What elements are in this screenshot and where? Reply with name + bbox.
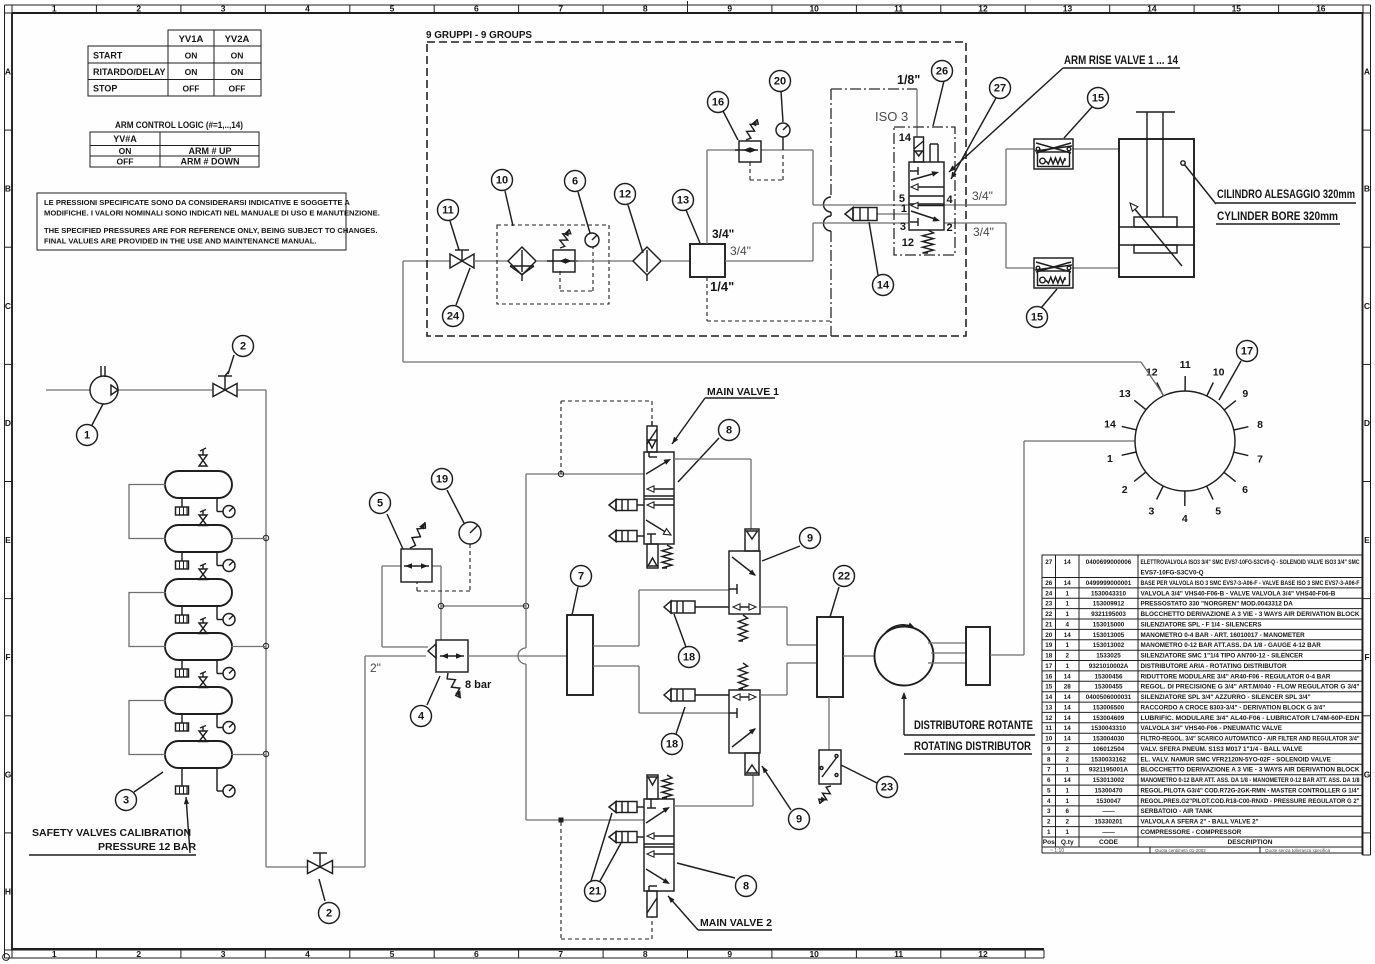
svg-text:1: 1 [1065, 663, 1069, 670]
svg-text:6: 6 [572, 176, 578, 188]
svg-text:SILENZIATORE SPL - F 1/4 - SIL: SILENZIATORE SPL - F 1/4 - SILENCERS [1141, 621, 1262, 628]
svg-text:1: 1 [1107, 453, 1113, 465]
svg-text:1: 1 [1047, 829, 1051, 836]
svg-text:FINAL VALUES ARE PROVIDED IN T: FINAL VALUES ARE PROVIDED IN THE USE AND… [44, 237, 317, 246]
wire filter 12 to block 13 [661, 260, 690, 262]
svg-text:THE SPECIFIED PRESSURES ARE FO: THE SPECIFIED PRESSURES ARE FOR REFERENC… [44, 226, 377, 235]
svg-text:3: 3 [123, 795, 129, 807]
svg-text:8: 8 [743, 881, 749, 893]
svg-text:11: 11 [894, 949, 903, 959]
balloon 13 [686, 210, 700, 243]
svg-text:7: 7 [578, 571, 584, 583]
svg-text:2: 2 [1122, 484, 1128, 496]
svg-text:RITARDO/DELAY: RITARDO/DELAY [93, 67, 166, 77]
pneumatic ball valve 9 bottom [729, 690, 760, 775]
svg-text:0400506000031: 0400506000031 [1086, 694, 1132, 701]
svg-text:1: 1 [1065, 642, 1069, 649]
silencer cartridges item 21 [609, 802, 644, 843]
svg-text:G: G [5, 769, 12, 779]
svg-text:3: 3 [1047, 808, 1051, 815]
svg-text:7: 7 [558, 4, 563, 14]
flow regulator 15 bottom [1034, 258, 1073, 288]
svg-text:13: 13 [1063, 4, 1073, 14]
svg-text:PRESSOSTATO 330 "NORGREN" MOD.: PRESSOSTATO 330 "NORGREN" MOD.0043312 DA [1141, 601, 1294, 608]
svg-text:OFF: OFF [183, 84, 200, 94]
svg-text:F: F [1364, 652, 1369, 662]
wire schedule circle to group supply [403, 261, 1164, 396]
svg-text:153006500: 153006500 [1093, 705, 1125, 712]
balloon 22 [830, 587, 839, 617]
svg-text:VALVOLA A SFERA 2" - BALL VALV: VALVOLA A SFERA 2" - BALL VALVE 2" [1141, 819, 1259, 826]
svg-text:10: 10 [809, 949, 819, 959]
pneumatic valve 14 cartridge [845, 208, 877, 221]
svg-text:9: 9 [727, 949, 732, 959]
label 3/4 pipes right [972, 189, 994, 239]
svg-text:E: E [1364, 535, 1370, 545]
group dashed box [427, 42, 966, 336]
svg-text:14: 14 [1064, 673, 1072, 680]
svg-text:3/4": 3/4" [972, 189, 993, 203]
wire valve 11 to filter group [474, 260, 508, 262]
balloon 26 [933, 81, 944, 126]
svg-text:19: 19 [1045, 642, 1053, 649]
svg-text:153015000: 153015000 [1093, 621, 1125, 628]
svg-text:LUBRIFIC. MODULARE 3/4" AL40-F: LUBRIFIC. MODULARE 3/4" AL40-F06 - LUBRI… [1141, 715, 1360, 722]
svg-text:1: 1 [52, 949, 57, 959]
svg-text:12: 12 [978, 949, 988, 959]
svg-text:——: —— [1102, 829, 1115, 836]
wire valve2 output to valve 9 bottom [674, 775, 753, 806]
svg-text:10: 10 [1213, 367, 1225, 379]
svg-text:——: —— [1102, 808, 1115, 815]
svg-text:20: 20 [1045, 632, 1053, 639]
svg-text:VALVOLA 3/4" VHS40-F06 - PNEUM: VALVOLA 3/4" VHS40-F06 - PNEUMATIC VALVE [1141, 725, 1282, 732]
balloon 14 [869, 222, 878, 275]
svg-text:22: 22 [1045, 611, 1053, 618]
wire pipes to flow regulators [1006, 149, 1119, 268]
node pilot junction valve 2 [559, 818, 564, 823]
svg-text:1: 1 [84, 430, 90, 442]
svg-text:8: 8 [1257, 419, 1263, 431]
svg-text:3/4": 3/4" [730, 244, 751, 258]
svg-text:4: 4 [305, 949, 310, 959]
svg-text:RIDUTTORE MODULARE 3/4" AR40-F: RIDUTTORE MODULARE 3/4" AR40-F06 - REGUL… [1141, 673, 1331, 680]
svg-text:11: 11 [1180, 359, 1191, 371]
svg-text:D: D [5, 418, 11, 428]
svg-text:0400699000006: 0400699000006 [1086, 559, 1132, 566]
svg-text:4: 4 [418, 711, 425, 723]
balloon 12 [628, 205, 643, 253]
svg-text:B: B [1364, 184, 1370, 194]
regulator in group 10 [547, 250, 578, 272]
svg-text:18: 18 [1045, 653, 1053, 660]
wire valve1 output to valve 9 top [674, 459, 751, 529]
node tank2 junction [263, 535, 268, 540]
svg-text:VALV. SFERA PNEUM. S1S3 M017: VALV. SFERA PNEUM. S1S3 M017 1"1/4 - BAL… [1141, 746, 1303, 753]
node tank6 junction [263, 751, 268, 756]
svg-text:9: 9 [1047, 746, 1051, 753]
svg-text:Pos: Pos [1043, 839, 1055, 846]
svg-text:9: 9 [807, 533, 813, 545]
svg-text:D: D [1364, 418, 1370, 428]
svg-text:BLOCCHETTO DERIVAZIONE A 3 VIE: BLOCCHETTO DERIVAZIONE A 3 VIE - 3 WAYS … [1141, 767, 1360, 774]
svg-text:3: 3 [1148, 505, 1154, 517]
svg-text:OFF: OFF [117, 157, 134, 167]
spring valve 9 top [739, 615, 748, 641]
svg-text:YV#A: YV#A [113, 134, 137, 144]
svg-text:8 bar: 8 bar [465, 679, 492, 691]
balloon 23 [841, 765, 877, 783]
svg-text:BLOCCHETTO DERIVAZIONE A 3 VIE: BLOCCHETTO DERIVAZIONE A 3 VIE - 3 WAYS … [1141, 611, 1360, 618]
svg-text:E: E [5, 535, 11, 545]
balloon 18 bottom [676, 707, 685, 734]
svg-text:18: 18 [683, 652, 695, 664]
label rotating distributor [901, 692, 1035, 754]
svg-text:6: 6 [1242, 484, 1248, 496]
fitting and gauge below tank 6 [176, 768, 236, 797]
balloon 18 top [674, 614, 686, 647]
pressure regulator 4 (2 inch pilot) [428, 640, 468, 672]
node junction 441,606 [441, 605, 526, 607]
svg-text:7: 7 [558, 949, 563, 959]
relief arrow regulator 5 [410, 522, 426, 548]
svg-text:15: 15 [1045, 684, 1053, 691]
svg-text:MANOMETRO 0-4 BAR - ART. 16010: MANOMETRO 0-4 BAR - ART. 16010017 - MANO… [1141, 632, 1306, 639]
svg-text:14: 14 [1064, 736, 1072, 743]
pilot line 1/4 dashed [707, 277, 831, 321]
balloon 11 [450, 221, 459, 250]
svg-text:1530047: 1530047 [1096, 798, 1121, 805]
svg-text:1530043310: 1530043310 [1091, 725, 1127, 732]
BOM parts table [1042, 555, 1362, 847]
svg-text:153009912: 153009912 [1093, 601, 1125, 608]
svg-text:12: 12 [619, 189, 631, 201]
svg-text:MAIN VALVE 1: MAIN VALVE 1 [707, 386, 779, 398]
svg-text:SILENZIATORE SPL 3/4" AZZURRO: SILENZIATORE SPL 3/4" AZZURRO - SILENCER… [1141, 694, 1311, 701]
svg-text:SAFETY VALVES CALIBRATION: SAFETY VALVES CALIBRATION [32, 827, 191, 839]
top center mark [687, 1, 689, 13]
svg-text:1: 1 [52, 4, 57, 14]
balloon 2 top [228, 355, 234, 374]
svg-text:RACCORDO A CROCE 8303-3/4" - D: RACCORDO A CROCE 8303-3/4" - DERIVATION … [1141, 705, 1326, 712]
svg-text:DESCRIPTION: DESCRIPTION [1227, 839, 1272, 846]
label ARM RISE VALVE [949, 55, 1180, 172]
svg-text:9321010002A: 9321010002A [1089, 663, 1129, 670]
balloon 15 bottom [1041, 289, 1057, 308]
balloon 7 [572, 587, 578, 615]
svg-text:EL. VALV. NAMUR SMC VFR2120N-5: EL. VALV. NAMUR SMC VFR2120N-5YO-02F - S… [1141, 756, 1331, 763]
svg-text:16: 16 [1045, 673, 1053, 680]
wire pipes to ISO valve [813, 205, 1006, 223]
svg-text:6: 6 [1047, 777, 1051, 784]
svg-text:14: 14 [1064, 694, 1072, 701]
svg-text:15300470: 15300470 [1094, 788, 1123, 795]
svg-text:14: 14 [1064, 580, 1072, 587]
wire block 13 loop bottom [725, 223, 813, 261]
svg-text:5: 5 [1047, 788, 1051, 795]
balloon 3 [134, 772, 163, 792]
svg-text:153004609: 153004609 [1093, 715, 1125, 722]
svg-text:9321195001A: 9321195001A [1089, 767, 1129, 774]
derivation block 22 [817, 617, 843, 697]
label cylinder [1181, 161, 1356, 224]
balloon 8 top [678, 438, 719, 482]
svg-text:14: 14 [1104, 419, 1116, 431]
svg-text:1530043310: 1530043310 [1091, 590, 1127, 597]
svg-text:14: 14 [1064, 632, 1072, 639]
svg-text:9 GRUPPI - 9 GROUPS: 9 GRUPPI - 9 GROUPS [426, 29, 532, 41]
svg-text:SILENZIATORE SMC 1"1/4 TIPO AN: SILENZIATORE SMC 1"1/4 TIPO AN700-12 - S… [1141, 653, 1304, 660]
svg-text:5: 5 [377, 498, 383, 510]
svg-text:1: 1 [1065, 767, 1069, 774]
gauge 6 [560, 233, 599, 291]
svg-text:BASE PER VALVOLA ISO 3 SMC EVS: BASE PER VALVOLA ISO 3 SMC EVS7-3-A06-F … [1141, 580, 1360, 587]
svg-text:15300456: 15300456 [1094, 673, 1123, 680]
filter group dashed box 10 [497, 225, 609, 304]
svg-text:EVS7-10FG-S3CV0-Q: EVS7-10FG-S3CV0-Q [1141, 570, 1204, 577]
svg-text:6: 6 [1065, 808, 1069, 815]
svg-text:3: 3 [221, 4, 226, 14]
svg-text:Q.ty: Q.ty [1061, 839, 1074, 846]
filter diamond [508, 247, 536, 281]
adapter block [966, 627, 990, 685]
svg-text:REGOL.PILOTA G3/4" COD.R72G-2G: REGOL.PILOTA G3/4" COD.R72G-2GK-RMN - MA… [1141, 788, 1360, 795]
label safety valves calibration [29, 797, 196, 855]
svg-text:16: 16 [712, 97, 724, 109]
svg-text:YV1A: YV1A [179, 34, 204, 45]
svg-text:ON: ON [231, 67, 244, 77]
wire receiver outputs [593, 590, 729, 713]
balloon 1 [92, 404, 103, 425]
svg-text:14: 14 [1064, 715, 1072, 722]
svg-text:106012504: 106012504 [1093, 746, 1125, 753]
safety valve on tank 1 [199, 448, 207, 466]
main valve 1 (item 8) [644, 421, 674, 568]
svg-text:9: 9 [1242, 388, 1248, 400]
svg-text:153004030: 153004030 [1093, 736, 1125, 743]
svg-text:8: 8 [643, 949, 648, 959]
svg-text:15300455: 15300455 [1094, 684, 1123, 691]
svg-text:ON: ON [231, 51, 244, 61]
svg-text:17: 17 [1241, 346, 1253, 358]
svg-text:1: 1 [1065, 601, 1069, 608]
gauge 19 [459, 522, 481, 544]
svg-text:26: 26 [936, 66, 948, 78]
svg-text:REGOL.PRES.G2"PILOT.COD.R18-C0: REGOL.PRES.G2"PILOT.COD.R18-C00-RNXD - P… [1141, 798, 1360, 805]
wire adapter to schedule circle [990, 441, 1135, 655]
svg-text:26: 26 [1045, 580, 1053, 587]
svg-text:4: 4 [1182, 513, 1188, 525]
pressure switch 23 [819, 697, 841, 784]
svg-text:1: 1 [1065, 788, 1069, 795]
svg-text:COMPRESSORE - COMPRESSOR: COMPRESSORE - COMPRESSOR [1141, 829, 1242, 836]
svg-text:LE PRESSIONI SPECIFICATE SONO: LE PRESSIONI SPECIFICATE SONO DA CONSIDE… [44, 198, 350, 207]
svg-text:11: 11 [442, 205, 454, 217]
manual valve 11 [450, 250, 474, 268]
svg-text:A: A [1364, 67, 1370, 77]
main valve 2 (item 8) [644, 775, 674, 917]
BOM header row [1043, 839, 1273, 846]
svg-text:3: 3 [221, 949, 226, 959]
svg-text:ARM CONTROL LOGIC (#=1,..,14): ARM CONTROL LOGIC (#=1,..,14) [115, 120, 243, 131]
table ARM CONTROL LOGIC [90, 120, 259, 167]
schedule circle rays and numbers [1104, 359, 1263, 525]
svg-text:21: 21 [589, 886, 601, 898]
svg-text:10: 10 [809, 4, 819, 14]
gauge 20 [750, 123, 790, 180]
svg-text:2: 2 [1065, 756, 1069, 763]
svg-text:22: 22 [838, 571, 850, 583]
svg-text:14: 14 [1064, 777, 1072, 784]
svg-text:G: G [1364, 769, 1371, 779]
air tanks item 3 (6x serbatoio) [129, 471, 266, 768]
master controller regulator 5 [401, 549, 432, 582]
svg-text:ROTATING DISTRIBUTOR: ROTATING DISTRIBUTOR [914, 739, 1031, 753]
svg-text:2: 2 [136, 4, 141, 14]
svg-text:F: F [5, 652, 10, 662]
svg-text:START: START [93, 51, 123, 61]
spring valve 9 bottom [739, 663, 748, 689]
balloon 10 [505, 191, 513, 226]
svg-text:14: 14 [1147, 4, 1157, 14]
svg-text:6: 6 [474, 4, 479, 14]
ball valve 2 top [213, 371, 237, 397]
svg-text:YV2A: YV2A [225, 34, 250, 45]
ball valve 2 bottom [308, 853, 333, 874]
bottom ruler [12, 949, 1044, 959]
svg-text:ARM # DOWN: ARM # DOWN [181, 157, 240, 167]
svg-text:C: C [5, 301, 11, 311]
svg-text:4: 4 [1047, 798, 1051, 805]
balloon 5 [387, 514, 403, 549]
node pilot junction valve 1 [558, 471, 563, 476]
svg-text:CILINDRO ALESAGGIO 320mm: CILINDRO ALESAGGIO 320mm [1217, 189, 1355, 201]
svg-text:2: 2 [1065, 653, 1069, 660]
right ruler letters [1363, 13, 1371, 855]
wire riser supply [518, 474, 644, 820]
svg-text:21: 21 [1045, 621, 1053, 628]
svg-text:3/4": 3/4" [973, 225, 994, 239]
wire main riser to tanks [265, 390, 267, 867]
spring ISO valve 12 side [923, 230, 934, 253]
svg-text:10: 10 [496, 175, 508, 187]
svg-text:15: 15 [1031, 312, 1043, 324]
svg-text:C: C [1364, 301, 1370, 311]
svg-text:MANOMETRO 0-12 BAR ATT.ASS. DA: MANOMETRO 0-12 BAR ATT.ASS. DA 1/8 - GAU… [1141, 642, 1322, 649]
svg-text:1533025: 1533025 [1096, 653, 1121, 660]
svg-text:23: 23 [1045, 601, 1053, 608]
svg-text:24: 24 [1045, 590, 1053, 597]
svg-text:14: 14 [1045, 694, 1053, 701]
svg-text:REGOL. DI PRECISIONE G 3/4" AR: REGOL. DI PRECISIONE G 3/4" ART.M/040 - … [1141, 684, 1360, 691]
wire valve 9 outputs to block 22 [760, 607, 817, 695]
svg-text:27: 27 [1045, 559, 1053, 566]
svg-text:11: 11 [1045, 725, 1052, 732]
svg-text:18: 18 [666, 739, 678, 751]
svg-text:4: 4 [305, 4, 310, 14]
balloon 8 bottom [677, 863, 735, 878]
balloon 9 top [762, 546, 800, 561]
pilot dashed valve 1 [561, 401, 652, 474]
balloon 24 [456, 268, 470, 305]
svg-text:7: 7 [1257, 453, 1263, 465]
relief arrow 23 [819, 786, 831, 804]
silencer 18 top [664, 601, 729, 613]
title block fragment [1042, 847, 1362, 854]
svg-text:2: 2 [136, 949, 141, 959]
svg-text:MAIN VALVE 2: MAIN VALVE 2 [700, 917, 772, 929]
svg-text:9: 9 [727, 4, 732, 14]
wire distributor to adapter block [928, 643, 966, 663]
svg-text:24: 24 [447, 311, 460, 323]
svg-text:17: 17 [1045, 663, 1053, 670]
svg-text:SERBATOIO - AIR TANK: SERBATOIO - AIR TANK [1141, 808, 1213, 815]
balloon 6 [578, 192, 590, 233]
balloon 19 [447, 490, 464, 523]
svg-text:ARM RISE VALVE 1 ... 14: ARM RISE VALVE 1 ... 14 [1064, 55, 1179, 67]
svg-text:153013002: 153013002 [1093, 777, 1125, 784]
left ruler letters [5, 13, 13, 950]
svg-text:ON: ON [185, 51, 198, 61]
pilot dashed valve 2 [561, 822, 652, 939]
balloon 2 bottom [319, 879, 325, 901]
svg-text:13: 13 [677, 195, 689, 207]
svg-text:1: 1 [901, 203, 907, 215]
svg-text:11: 11 [894, 4, 903, 14]
flow regulator 15 top [1034, 139, 1073, 169]
svg-text:5: 5 [1215, 506, 1221, 518]
silencer cartridges main valve 1 [609, 500, 644, 542]
filter 12 diamond [633, 247, 661, 281]
svg-text:6: 6 [474, 949, 479, 959]
pilot supply dash-dot lines [824, 89, 918, 336]
wire 2 inch line to receiver 7 [468, 655, 567, 657]
wire filter to regulator [536, 260, 553, 262]
pneumatic ball valve 9 top [729, 529, 760, 614]
svg-text:15: 15 [1092, 93, 1104, 105]
svg-text:19: 19 [436, 474, 448, 486]
derivation block 13 [690, 244, 725, 277]
relief arrow regulator 10 [560, 229, 571, 248]
svg-text:4: 4 [1065, 621, 1069, 628]
svg-text:15330201: 15330201 [1094, 819, 1123, 826]
svg-text:9: 9 [796, 814, 802, 826]
svg-text:ON: ON [119, 146, 132, 156]
balloon 21 [591, 813, 621, 881]
label MAIN VALVE 2 [668, 896, 772, 930]
balloon 27 [951, 98, 996, 179]
svg-text:27: 27 [994, 83, 1006, 95]
svg-text:1: 1 [1065, 611, 1069, 618]
svg-text:153013005: 153013005 [1093, 632, 1125, 639]
svg-text:7: 7 [1047, 767, 1051, 774]
svg-text:OFF: OFF [229, 84, 246, 94]
svg-text:8: 8 [643, 4, 648, 14]
svg-text:0499999000001: 0499999000001 [1086, 580, 1132, 587]
svg-text:2: 2 [240, 341, 246, 353]
svg-text:153013002: 153013002 [1093, 642, 1125, 649]
svg-text:CODE: CODE [1099, 839, 1119, 846]
svg-text:1/4": 1/4" [710, 279, 734, 294]
svg-text:5: 5 [390, 4, 395, 14]
svg-text:15: 15 [1232, 4, 1242, 14]
svg-text:14: 14 [1064, 705, 1072, 712]
svg-text:13: 13 [1119, 388, 1131, 400]
balloon 15 top [1064, 107, 1092, 138]
svg-text:Quote senza tolleranza specifi: Quote senza tolleranza specifica [1265, 848, 1331, 853]
svg-text:3/4": 3/4" [712, 227, 734, 241]
svg-text:H: H [5, 886, 11, 896]
